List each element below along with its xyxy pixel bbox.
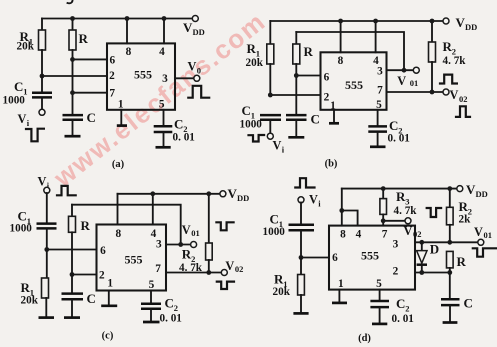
wire VDD top rail (c) [118,193,221,195]
svg-text:DD: DD [476,189,488,199]
svg-text:8: 8 [340,228,346,240]
waveform neg pulse V01 (d) [473,248,497,256]
svg-text:555: 555 [361,249,379,263]
waveform neg pulse V01 (c) [216,222,233,230]
wire pin8 to rail (a) [126,19,128,44]
svg-text:V: V [466,182,476,197]
resistor R2 body (c) [206,243,213,260]
node dot pin2-R (d) [447,270,452,275]
svg-text:6: 6 [324,72,330,84]
svg-text:6: 6 [332,252,338,264]
ground C2 (a) [156,146,171,149]
ground pin1 (a) [120,110,122,125]
node dot rail-R2 (c) [206,191,211,196]
waveform pos pulse V0 (a) [188,86,209,98]
svg-text:DD: DD [465,22,477,32]
svg-text:1000: 1000 [240,119,263,131]
node dot rail-pin4 (b) [373,19,378,24]
svg-text:0. 01: 0. 01 [392,313,415,325]
svg-text:2: 2 [324,92,330,104]
resistor R1 (b) [269,21,271,44]
wire pin3 output (b) [387,69,414,71]
svg-text:D: D [430,242,439,257]
svg-text:C: C [396,296,405,311]
waveform neg pulse V02 (d) [427,208,441,217]
node dot pin8 branch (d) [339,208,344,213]
wire VDD top rail (d) [342,188,457,190]
wire pin4 to rail (c) [152,194,154,225]
svg-text:20k: 20k [246,57,264,69]
svg-text:C: C [242,103,251,118]
terminal V01 (b) [413,67,419,73]
terminal Vi (a) [39,109,45,115]
svg-text:C: C [174,117,183,132]
resistor R1 (d) [300,258,302,275]
svg-text:V: V [228,186,238,201]
svg-text:1000: 1000 [263,226,286,238]
svg-text:V: V [456,15,466,30]
svg-text:7: 7 [377,85,383,97]
node dot rail-R2 (d) [447,186,452,191]
terminal V0 (a) [194,75,200,81]
svg-text:555: 555 [345,78,363,92]
node dot pin3 (b) [402,68,407,73]
svg-text:DD: DD [193,27,205,37]
node dot pin6 (c) [44,247,49,252]
wire pin6 (d) [301,257,329,259]
capacitor C2 (c) [150,291,152,304]
waveform pos pulse V01 (b) [440,75,457,84]
node dot pin6 (b) [294,73,299,78]
ground C2 (c) [143,321,160,324]
svg-text:1: 1 [338,278,344,290]
svg-text:8: 8 [126,46,132,58]
svg-text:7: 7 [382,228,388,240]
node dot pin7-R2 (b) [430,90,435,95]
terminal V01 (d) [478,239,484,245]
svg-text:20k: 20k [17,41,35,53]
svg-text:C: C [389,118,398,133]
diode D (d) [421,242,423,250]
svg-text:02: 02 [235,264,244,274]
resistor R (d) [447,251,454,268]
svg-text:01: 01 [191,228,200,238]
resistor R (b) [295,32,297,44]
node dot pin3-R (d) [447,240,452,245]
terminal V02 (c) [221,270,227,276]
svg-text:V: V [273,139,282,153]
wire pin2 (d) [415,272,450,274]
svg-text:V: V [450,88,459,102]
ground C2 (b) [370,145,386,148]
svg-text:02: 02 [459,94,468,104]
svg-text:8: 8 [338,55,344,67]
svg-text:1: 1 [118,99,124,111]
svg-text:(c): (c) [102,331,114,342]
wire pin2 (a) [42,75,107,77]
terminal Vi (b) [267,133,273,139]
ground C (d) [443,321,458,324]
resistor R2 (b) [431,21,433,42]
svg-text:8: 8 [115,228,121,240]
svg-text:6: 6 [109,54,115,66]
svg-text:C: C [165,296,174,311]
capacitor C1 (b) [260,114,281,117]
wire pin3 output (a) [175,77,194,79]
wire pin2 (b) [270,94,320,96]
wire Vi down (d) [300,203,302,225]
svg-text:2: 2 [405,304,409,314]
terminal Vi (d) [298,197,304,203]
svg-text:C: C [464,296,473,311]
svg-text:DD: DD [237,193,249,203]
node dot rail-pin8 (b) [338,19,343,24]
svg-text:V: V [188,60,197,74]
wire pin3 output (d) [415,241,478,243]
wire Vi down (c) [46,193,48,223]
waveform pos pulse Vi (d) [295,178,314,187]
node dot pin2 (b) [268,93,273,98]
op IC 555 body (c) [97,225,167,291]
svg-text:5: 5 [149,279,155,291]
node dot rail-R3 (d) [381,186,386,191]
node dot rail-pin8 (a) [125,16,130,21]
capacitor C2 (b) [377,110,379,126]
svg-text:C: C [270,212,279,227]
terminal VDD (d) [457,186,463,192]
svg-text:4. 7k: 4. 7k [394,205,418,217]
waveform pos pulse V02 (b) [456,106,470,117]
wire pin8 to rail (b) [340,21,342,52]
terminal V02 (d) [405,218,411,224]
op IC 555 body (a) [107,43,175,109]
svg-text:01: 01 [484,230,493,240]
svg-text:R: R [81,218,91,233]
wire pin6 (a) [73,58,108,60]
svg-text:V: V [397,74,406,88]
svg-text:V: V [18,112,27,126]
wire pin6 (b) [296,75,320,77]
svg-text:4: 4 [356,228,362,240]
svg-text:V: V [474,225,483,239]
op IC 555 body (d) [329,226,415,290]
node dot pin2-R (c) [70,272,75,277]
node dot pin6 (d) [299,255,304,260]
capacitor C2 (d) [379,290,381,301]
svg-text:1000: 1000 [3,95,26,107]
node dot R3-pin7 (d) [381,218,386,223]
terminal V01 (c) [191,242,197,248]
svg-text:V: V [225,259,234,273]
svg-text:3: 3 [393,239,399,251]
wire pin7 output (c) [166,272,222,274]
svg-text:V: V [182,223,191,237]
wire feedback rail (b) [296,32,404,68]
svg-text:C: C [87,110,96,125]
node dot pin7-R2 (c) [206,270,211,275]
capacitor C1 (c) [37,222,57,225]
ground R1 (d) [293,312,308,315]
svg-text:C: C [14,79,23,94]
wire pin4 to rail (a) [163,19,165,44]
capacitor C1 (d) [289,224,315,227]
node dot pin3-D (d) [419,240,424,245]
svg-text:C: C [18,209,27,224]
capacitor C (d) [441,298,460,301]
svg-text:0. 01: 0. 01 [173,132,196,144]
wire feedback rail (c) [72,205,181,242]
capacitor C2 (a) [163,110,165,126]
wire pin8 to rail (d) [341,189,343,226]
svg-text:3: 3 [162,73,168,85]
svg-text:R: R [457,254,467,269]
ground C (b) [288,136,304,139]
svg-text:2: 2 [393,266,399,278]
ground pin1 (c) [108,291,110,305]
svg-text:C: C [87,291,96,306]
svg-text:0. 01: 0. 01 [388,133,411,145]
svg-text:7: 7 [109,88,115,100]
ground C (c) [64,316,80,319]
svg-text:4: 4 [159,46,165,58]
wire V02 tap (d) [383,220,405,222]
svg-text:V: V [404,224,413,238]
waveform neg pulse Vi (a) [26,129,44,142]
wire pin8 to rail (c) [117,194,119,225]
capacitor C (a) [63,114,84,117]
svg-text:C: C [311,112,320,127]
terminal VDD (c) [220,191,226,197]
node dot rail-pin4 (a) [162,16,167,21]
resistor R (a) [72,19,74,31]
node dot rail-R (a) [70,16,75,21]
resistor R3 (d) [382,189,384,199]
svg-text:(a): (a) [112,159,125,170]
svg-text:02: 02 [413,229,422,239]
terminal VDD (b) [443,18,449,24]
stray glyph top edge [68,0,73,3]
node dot rail-R2 (b) [430,19,435,24]
wire R2 column (c) [208,194,210,243]
waveform pos pulse Vi (c) [57,186,76,195]
node dot pin2-D (d) [419,270,424,275]
ground C (a) [65,135,81,138]
svg-text:555: 555 [125,253,143,267]
svg-text:1: 1 [107,278,113,290]
svg-text:7: 7 [155,263,161,275]
node dot pin6 (a) [70,57,75,62]
svg-text:20k: 20k [21,295,39,307]
svg-text:R: R [304,44,314,59]
ground pin1 (d) [338,290,340,302]
node dot pin7 (a) [70,90,75,95]
svg-text:V: V [309,193,318,207]
svg-text:2: 2 [99,269,105,281]
wire pin2 (c) [72,274,97,276]
node dot rail-pin4 (c) [150,191,155,196]
node dot pin2 (a) [40,74,45,79]
wire pin7 (a) [73,92,108,94]
node dot pin3 (c) [178,242,183,247]
ground pin1 (b) [333,110,335,122]
waveform neg pulse Vi (b) [249,135,265,142]
wire pin7 output (b) [387,91,444,93]
svg-text:0: 0 [197,66,201,76]
svg-text:5: 5 [159,99,165,111]
capacitor C (b) [286,114,307,117]
resistor R2 (d) [449,189,451,208]
svg-text:V: V [183,20,193,35]
svg-text:555: 555 [134,68,152,82]
svg-text:0. 01: 0. 01 [160,313,183,325]
svg-text:R: R [79,31,89,46]
wire pin3 output (c) [166,244,191,246]
svg-text:5: 5 [376,278,382,290]
wire VDD top rail (b) [270,20,443,22]
resistor R1 (a) [41,19,43,31]
svg-text:3: 3 [377,65,383,77]
svg-text:(b): (b) [325,159,338,170]
ground R1 (c) [39,316,55,319]
terminal V02 (b) [443,89,449,95]
op IC 555 body (b) [321,52,387,110]
capacitor C (c) [62,292,84,295]
resistor R (c) [71,205,73,217]
terminal Vi (c) [44,187,50,193]
wire pin4 to rail (b) [375,21,377,52]
svg-text:6: 6 [100,245,106,257]
svg-text:4. 7k: 4. 7k [443,55,467,67]
capacitor C1 (a) [41,76,43,92]
svg-text:(d): (d) [358,333,371,344]
wire pin6 (c) [47,249,97,251]
waveform neg pulse V02 (c) [217,282,234,289]
ground C2 (d) [372,323,387,326]
svg-text:1000: 1000 [10,223,33,235]
svg-text:20k: 20k [273,286,291,298]
resistor R1 (c) [46,250,48,279]
svg-text:3: 3 [156,239,162,251]
wire pin4 jumper (d) [342,211,358,226]
svg-text:2: 2 [174,303,178,313]
svg-text:01: 01 [410,78,419,88]
svg-text:V: V [38,175,47,189]
svg-text:2: 2 [109,70,115,82]
wire VDD top rail (a) [42,18,192,20]
terminal VDD (a) [192,16,198,22]
svg-text:2k: 2k [459,214,472,226]
